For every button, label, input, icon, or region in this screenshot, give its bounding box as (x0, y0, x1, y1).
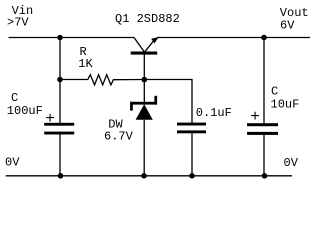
svg-text:6V: 6V (280, 18, 295, 32)
svg-text:+: + (250, 108, 260, 126)
node top-left junction dot (57, 35, 63, 41)
capacitor C2 0.1uF top plate (177, 123, 206, 126)
capacitor C1 bottom lead (59, 135, 61, 177)
node R left junction dot (57, 77, 63, 83)
wire left branch vertical (59, 38, 61, 124)
capacitor C1 100uF bottom plate (44, 132, 74, 135)
capacitor C2 bottom lead (191, 133, 193, 176)
capacitor C3 bottom lead (263, 135, 265, 176)
svg-text:0V: 0V (5, 156, 20, 170)
wire bottom rail 0V (6, 175, 292, 177)
transistor Q1 collector lead (134, 38, 145, 53)
zener diode DW cathode right tick (154, 96, 157, 105)
wire right branch vertical (263, 38, 265, 124)
svg-text:100uF: 100uF (7, 104, 43, 118)
zener diode DW top lead (143, 80, 145, 103)
transistor Q1 emitter lead with arrow (144, 39, 155, 53)
svg-text:6.7V: 6.7V (104, 130, 134, 144)
zener diode DW bottom lead (143, 120, 145, 176)
node bottom junction dot C2 (189, 173, 195, 179)
capacitor C1 100uF top plate (44, 123, 74, 126)
svg-text:Q1 2SD882: Q1 2SD882 (115, 12, 180, 26)
svg-text:1K: 1K (78, 57, 93, 71)
svg-text:10uF: 10uF (271, 97, 300, 111)
node bottom junction dot zener (141, 173, 147, 179)
svg-text:0V: 0V (284, 156, 299, 170)
node base junction dot (142, 77, 148, 83)
resistor R1 1K zigzag (60, 75, 144, 85)
svg-text:>7V: >7V (7, 15, 29, 29)
capacitor C3 10uF bottom plate (247, 132, 278, 135)
node bottom junction dot C1 (58, 173, 64, 179)
wire base node to 0.1uF branch (144, 80, 192, 124)
wire top rail right (emitter to Vout) (158, 37, 311, 39)
transistor Q1 base bar (131, 52, 158, 55)
node top-right junction dot (261, 35, 267, 41)
capacitor C3 10uF top plate (247, 123, 278, 126)
node bottom junction dot C3 (262, 173, 268, 179)
zener diode DW anode triangle (136, 104, 153, 120)
capacitor C2 0.1uF bottom plate (177, 130, 206, 133)
transistor Q1 base lead (143, 53, 145, 81)
zener diode DW cathode bar (130, 102, 157, 105)
svg-text:0.1uF: 0.1uF (196, 106, 232, 120)
svg-text:+: + (45, 110, 55, 128)
zener diode DW cathode left tick (130, 102, 133, 111)
wire top rail left (Vin to collector) (9, 37, 135, 39)
